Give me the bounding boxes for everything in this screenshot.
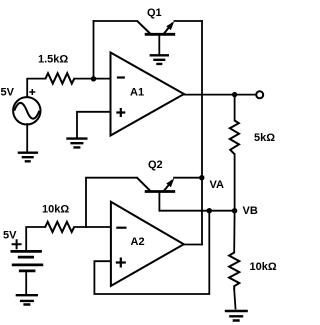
svg-text:VA: VA bbox=[210, 179, 225, 191]
wire: right feedback drop from top rail to A2 output bbox=[201, 21, 203, 245]
transistor Q2 bbox=[137, 159, 175, 192]
node VA bbox=[199, 175, 224, 191]
svg-text:5V: 5V bbox=[1, 87, 15, 99]
node: A1 output / 5k junction bbox=[232, 92, 237, 97]
wire: AC source bottom lead bbox=[26, 124, 28, 153]
svg-text:1.5kΩ: 1.5kΩ bbox=[38, 54, 68, 66]
resistor R3 10k bbox=[229, 253, 277, 290]
output terminal (open circle) bbox=[256, 91, 263, 98]
wire: 5k top lead bbox=[234, 95, 236, 121]
wire: R4 to A2 inverting input bbox=[74, 226, 111, 228]
transistor Q1 bbox=[137, 7, 175, 34]
node: divider tap on VB line bbox=[207, 208, 212, 213]
wire: 5k bottom lead to VB bbox=[234, 154, 236, 211]
svg-text:VB: VB bbox=[243, 205, 258, 217]
ground: Q1 base bbox=[150, 55, 169, 64]
ground: R3 bbox=[225, 311, 248, 321]
wire: Q2 base lead to VB line bbox=[158, 192, 160, 211]
node VB bbox=[232, 205, 258, 217]
wire: battery bottom lead bbox=[25, 271, 27, 295]
svg-text:Q1: Q1 bbox=[147, 7, 162, 19]
resistor R2 5k bbox=[230, 121, 275, 155]
svg-text:5V: 5V bbox=[3, 230, 17, 242]
wire: top rail left segment to Q1 collector bbox=[94, 20, 138, 22]
wire: top rail right segment from Q1 emitter bbox=[175, 20, 203, 22]
wire: R3 bottom lead to ground bbox=[234, 290, 235, 309]
wire: A2 output to feedback drop bbox=[184, 244, 202, 246]
wire: R1 to A1 inverting input bbox=[74, 78, 110, 80]
svg-text:5kΩ: 5kΩ bbox=[254, 132, 275, 144]
wire: battery top lead to R4 bbox=[26, 227, 45, 251]
svg-text:A2: A2 bbox=[131, 236, 145, 248]
ground: AC source bbox=[18, 153, 38, 162]
svg-text:Q2: Q2 bbox=[148, 159, 163, 171]
svg-text:A1: A1 bbox=[130, 87, 144, 99]
wire: Q2 emitter to VA node bbox=[174, 177, 202, 179]
wire: AC source top lead to R1 bbox=[27, 79, 45, 98]
wire: A2 feedback riser to Q2 collector bbox=[86, 178, 137, 227]
wire: feedback riser from inverting node to top rail bbox=[93, 21, 95, 79]
battery V2 5V bbox=[3, 230, 43, 271]
wire: VB line bbox=[159, 210, 234, 212]
wire: VB to R3 top lead bbox=[233, 211, 235, 253]
node: A1 inverting input junction bbox=[91, 76, 96, 81]
wire: VB tap down to bottom rail and A2 non-inverting input bbox=[94, 211, 209, 294]
wire: A1 non-inverting input to ground bbox=[77, 112, 111, 138]
svg-text:10kΩ: 10kΩ bbox=[250, 261, 277, 273]
resistor R1 1.5k bbox=[38, 54, 74, 84]
ground: battery bbox=[16, 295, 38, 304]
svg-text:10kΩ: 10kΩ bbox=[42, 204, 69, 216]
op-amp A2 bbox=[111, 202, 184, 286]
op-amp A1 bbox=[111, 53, 185, 136]
wire: A1 output to output terminal bbox=[184, 94, 256, 96]
ground: A1 non-inverting input bbox=[66, 139, 87, 148]
voltage source VS1 5V AC bbox=[1, 87, 41, 125]
wire: Q1 base lead bbox=[158, 35, 160, 55]
resistor R4 10k bbox=[42, 204, 74, 233]
